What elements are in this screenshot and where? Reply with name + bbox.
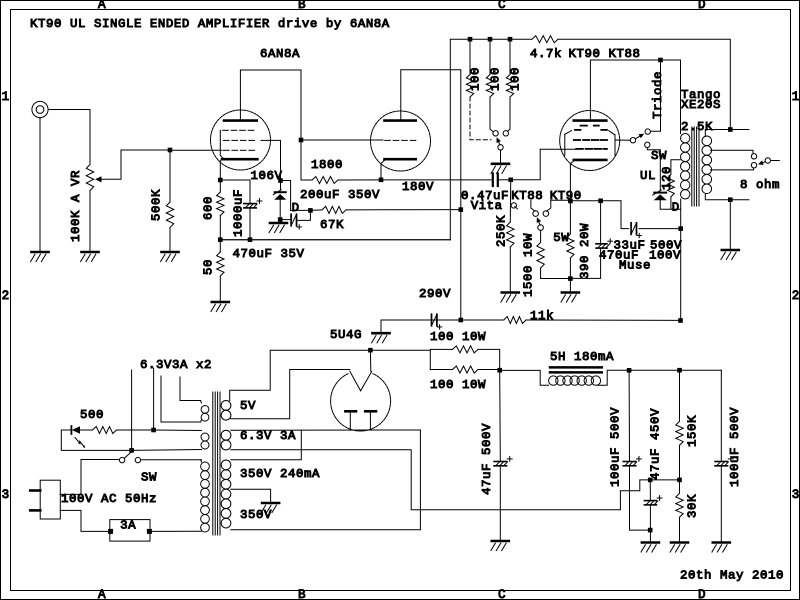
- wire LED to 500: [80, 429, 93, 431]
- wire 100uF b bottom lead: [720, 466, 722, 542]
- switch SW UL contact bottom: [645, 142, 650, 147]
- wire 47uF500 bottom lead: [499, 466, 501, 540]
- svg-text:KT88: KT88: [511, 189, 543, 203]
- wire tee to 470uF: [600, 201, 602, 244]
- potentiometer VR1 100K A: [86, 165, 93, 191]
- svg-text:106V: 106V: [251, 169, 283, 183]
- svg-text:2.5K: 2.5K: [681, 120, 713, 134]
- wire plate node to triode grid: [301, 139, 383, 141]
- svg-text:B: B: [298, 588, 306, 600]
- switch SW fb contact L: [493, 131, 498, 136]
- label 100uF 500V (a): [608, 407, 622, 487]
- wire coupling cap to grid node: [498, 179, 511, 181]
- transformer T1 power: [201, 392, 231, 535]
- pot wiper arrow: [95, 176, 102, 182]
- node heater junction a: [151, 428, 156, 433]
- svg-text:3: 3: [792, 488, 800, 502]
- svg-text:C: C: [498, 588, 506, 600]
- wire filament right arm: [369, 350, 371, 371]
- wire pole to 1500: [540, 230, 542, 242]
- label 1500 10W: [521, 233, 535, 297]
- node KT90 plate junction: [658, 58, 663, 63]
- wire secondary bottom lead: [705, 194, 749, 200]
- fuse F1 3A: [108, 520, 152, 542]
- svg-text:600: 600: [201, 196, 215, 220]
- wire 100 10W b left lead: [430, 369, 452, 371]
- label 350V 240mA: [240, 467, 320, 481]
- svg-text:11k: 11k: [530, 309, 554, 323]
- svg-text:D: D: [672, 201, 680, 215]
- wire secondary tap 1: [711, 150, 754, 153]
- node secondary top junction: [728, 127, 733, 132]
- node screen 106V: [278, 178, 283, 183]
- wire screen node right: [281, 181, 291, 211]
- wire triode cathode lead: [380, 164, 382, 180]
- label 6AN8A: [260, 47, 300, 61]
- ground (30K): [670, 543, 688, 553]
- wire 150K top lead: [679, 370, 681, 421]
- wire output pole lead: [771, 160, 780, 162]
- ground (fb switch): [491, 164, 509, 174]
- tube V2 KT90 output: [560, 111, 620, 171]
- wire pentode cathode lead: [219, 161, 221, 181]
- wire primary bottom lead: [680, 199, 682, 229]
- wire screen node to diode: [280, 181, 282, 191]
- capacitor C bias bypass: [291, 214, 301, 229]
- node cathode bottom junction: [568, 276, 573, 281]
- node heater junction b: [129, 448, 134, 453]
- label 180V: [402, 180, 434, 194]
- wire 1800 left lead: [301, 179, 312, 181]
- wire grid node to pentode g1: [170, 149, 222, 151]
- wire jack to pot: [48, 109, 90, 111]
- svg-text:30K: 30K: [685, 494, 699, 518]
- resistor R 100 fb select 3: [506, 75, 513, 98]
- node rail R3 tap: [508, 37, 513, 42]
- svg-text:100K A VR: 100K A VR: [69, 170, 83, 242]
- wire KT88 contact stub: [531, 200, 535, 211]
- label 67K: [320, 218, 344, 232]
- svg-text:1: 1: [2, 90, 10, 104]
- resistor R 500 pilot: [93, 427, 117, 434]
- node grid of pentode: [168, 148, 173, 153]
- capacitor C 1000uF: [244, 199, 262, 208]
- svg-text:A: A: [98, 0, 106, 12]
- label 47uF 500V: [480, 423, 494, 495]
- date label 20th May 2010: [680, 569, 784, 583]
- label 470uF 100V: [599, 248, 681, 262]
- wire KT90 g2 lead: [615, 139, 630, 141]
- wire choke right lead: [598, 370, 629, 385]
- svg-text:120: 120: [660, 166, 674, 190]
- wire feedback vertical: [450, 39, 532, 240]
- resistor R 100 10W a: [453, 346, 479, 353]
- wire cathode node right: [570, 200, 600, 202]
- node primary bottom junction: [678, 226, 683, 231]
- svg-text:20th May 2010: 20th May 2010: [680, 569, 784, 583]
- switch SW UL contact top: [645, 129, 650, 134]
- label 500K: [149, 189, 163, 221]
- ground (250K): [501, 293, 519, 303]
- label 2.5K: [681, 120, 713, 134]
- wire jack ground lead: [39, 118, 41, 252]
- terminal circle on 250K line: [511, 203, 517, 209]
- svg-text:Vita: Vita: [471, 199, 503, 213]
- switch SW output contact bottom: [751, 163, 756, 168]
- wire fuse to primary bottom: [149, 530, 201, 532]
- svg-text:6AN8A: 6AN8A: [260, 47, 300, 61]
- svg-text:350V: 350V: [240, 508, 272, 522]
- capacitor C 0.47uF coupling: [493, 174, 498, 187]
- capacitor C 100uF 500V b: [715, 457, 733, 466]
- resistor R 1500 10W: [537, 242, 544, 268]
- node filter input: [497, 368, 502, 373]
- wire pentode plate to node: [240, 70, 301, 180]
- label 47uF 450V: [648, 408, 662, 480]
- wire 100 10W a right lead: [478, 349, 500, 370]
- wire plug top lead: [60, 460, 119, 495]
- ground (bias diode): [269, 223, 287, 233]
- resistor R 390 20W: [567, 234, 574, 258]
- resistor R 50: [217, 252, 224, 276]
- wire 390 bottom lead: [569, 258, 571, 279]
- wire B+ to dropping resistors: [370, 350, 430, 370]
- wire 6.3V bottom to bias: [231, 450, 650, 510]
- wire plate node to primary top: [661, 60, 681, 134]
- capacitor C fb line: [432, 314, 442, 329]
- label 150K: [685, 415, 699, 447]
- ground (KT90 cathode): [561, 293, 579, 303]
- svg-text:5V: 5V: [240, 399, 256, 413]
- label XE20S: [681, 98, 721, 112]
- wire 67K to plate line: [346, 209, 461, 211]
- resistor R 30K bleeder: [676, 493, 683, 517]
- node cathode fb junction: [218, 237, 223, 242]
- svg-text:B: B: [298, 0, 306, 12]
- label 1000uF: [231, 189, 245, 237]
- node B+ transformer junction: [678, 318, 683, 323]
- label 350V (lower): [240, 508, 272, 522]
- svg-text:1800: 1800: [311, 158, 343, 172]
- svg-text:2: 2: [2, 289, 10, 303]
- wire 600 to fb node: [219, 216, 221, 240]
- label D: [292, 201, 300, 215]
- wire triode plate lead: [401, 70, 461, 210]
- switch SW cathode contact KT90: [543, 211, 549, 217]
- resistor R 500K grid leak: [166, 202, 173, 228]
- wire diode to ground node: [279, 200, 281, 220]
- wire cathode bottom to ground: [569, 279, 571, 292]
- wire pot bottom lead: [89, 191, 91, 253]
- wire feedback row: [220, 239, 450, 241]
- switch SW fb contact R: [503, 131, 508, 136]
- wire 50 bottom lead: [219, 276, 221, 302]
- wire 250K top lead: [509, 180, 511, 222]
- wire cathode to coupling cap: [381, 179, 491, 181]
- label 5U4G: [330, 328, 362, 342]
- label Muse: [619, 259, 651, 273]
- label UL: [640, 169, 656, 183]
- svg-text:3A: 3A: [120, 519, 136, 533]
- wire pentode g2 lead: [271, 140, 281, 180]
- svg-text:KT90 UL SINGLE ENDED AMPLIFIER: KT90 UL SINGLE ENDED AMPLIFIER drive by …: [30, 17, 390, 31]
- node KT90 grid node: [508, 178, 513, 183]
- svg-text:XE20S: XE20S: [681, 98, 721, 112]
- label 250K: [494, 215, 508, 247]
- node triode cathode: [379, 178, 384, 183]
- label KT88: [511, 189, 543, 203]
- ground (pot): [81, 252, 99, 262]
- resistor R 150K bleeder: [676, 421, 683, 445]
- svg-text:6.3V3A x2: 6.3V3A x2: [140, 358, 212, 372]
- label SW (UL): [651, 149, 667, 163]
- wire 350V top lead: [231, 430, 301, 460]
- wire 1500 bottom lead: [541, 268, 571, 279]
- node 290V junction: [459, 318, 464, 323]
- label 100uF 500V (b): [728, 407, 742, 487]
- wire 100 10W b right lead: [478, 369, 500, 371]
- wire 50 top lead: [219, 240, 221, 252]
- wire 290V line left: [381, 320, 460, 333]
- resistor R 100 10W b: [453, 366, 479, 373]
- ground (350V center tap): [261, 503, 279, 513]
- switch SW output pole: [765, 158, 770, 163]
- wire heater lead 3: [161, 376, 201, 422]
- title text KT90 UL SINGLE ENDED AMPLIFIER drive by 6AN8A: [30, 17, 390, 31]
- svg-text:Muse: Muse: [619, 259, 651, 273]
- transformer T2 Tango XE20S output: [681, 127, 712, 206]
- wire wiper to grid node: [102, 150, 171, 179]
- inductor L1 choke 5H 180mA: [549, 367, 602, 385]
- wire secondary top lead: [705, 130, 749, 137]
- capacitor C 100uF 500V a: [623, 457, 641, 466]
- label 100K A VR: [69, 170, 83, 242]
- wire 100uF a bottom lead: [630, 466, 651, 530]
- node diode ground junction: [278, 217, 283, 222]
- svg-text:250K: 250K: [494, 215, 508, 247]
- ground (input jack): [31, 252, 49, 262]
- svg-text:KT90 KT88: KT90 KT88: [569, 47, 641, 61]
- resistor R 11k: [504, 317, 526, 324]
- wire 150K bottom lead: [679, 445, 681, 480]
- label 600: [201, 196, 215, 220]
- label 50: [201, 259, 215, 275]
- label 100 10W (a): [430, 330, 486, 344]
- switch SW cathode pole: [538, 225, 544, 231]
- wire B+ distribution: [629, 369, 721, 371]
- wire primary bottom to B+ node: [680, 229, 682, 321]
- wire L2 bottom lead: [132, 449, 202, 452]
- wire switch to primary: [141, 459, 202, 461]
- wire 250K bottom lead: [509, 247, 511, 292]
- node pentode cathode: [218, 178, 223, 183]
- wire cap to 67K node: [297, 210, 311, 220]
- switch SW mains b: [135, 457, 140, 462]
- capacitor C 33uF 500V: [631, 223, 641, 238]
- wire 100uF b top lead: [720, 370, 722, 461]
- svg-text:D: D: [698, 588, 706, 600]
- switch SW mains a: [119, 457, 124, 462]
- wire L2 top lead: [154, 429, 202, 432]
- wire cap left lead: [381, 319, 429, 321]
- wire choke left lead: [500, 370, 549, 385]
- svg-text:100 10W: 100 10W: [430, 330, 486, 344]
- svg-text:4.7k: 4.7k: [530, 47, 562, 61]
- node B+ 150K junction: [677, 368, 682, 373]
- label 100 (2): [488, 67, 502, 91]
- resistor R 4.7k feedback: [532, 36, 558, 43]
- wire KT90 cathode lead: [569, 164, 571, 201]
- wire pot top lead: [89, 110, 91, 165]
- wire 120 top to UL tap: [671, 160, 680, 175]
- svg-text:5H 180mA: 5H 180mA: [550, 350, 614, 364]
- label 1800: [311, 158, 343, 172]
- wire 33uF to primary bottom node: [639, 228, 681, 230]
- tube V1 6AN8A triode section: [371, 111, 431, 171]
- capacitor C 47uF 450V: [644, 496, 662, 505]
- wire 30K bottom lead: [679, 517, 681, 541]
- svg-text:350V 240mA: 350V 240mA: [240, 467, 320, 481]
- svg-text:5U4G: 5U4G: [330, 328, 362, 342]
- resistor R 100 fb select 1: [466, 75, 473, 98]
- label 5H 180mA: [550, 350, 614, 364]
- wire 1800 right lead: [338, 179, 381, 181]
- label 100V AC 50Hz: [61, 492, 157, 506]
- wire 500K top lead: [169, 150, 171, 202]
- node choke output: [627, 368, 632, 373]
- label 8 ohm: [740, 178, 780, 192]
- node 47uF450 bottom junction: [648, 528, 653, 533]
- svg-text:200uF 350V: 200uF 350V: [300, 188, 380, 202]
- label 6.3V3A x2: [140, 358, 212, 372]
- mains plug: [30, 480, 60, 519]
- svg-text:470uF 35V: 470uF 35V: [233, 247, 305, 261]
- label 3A: [120, 519, 136, 533]
- label 100 10W (b): [430, 378, 486, 392]
- tube V1 6AN8A pentode section: [211, 110, 271, 170]
- wire secondary tap 2: [711, 168, 754, 170]
- resistor R 120: [668, 175, 675, 197]
- wire UL contact to 120: [647, 148, 660, 191]
- label 106V: [251, 169, 283, 183]
- UL switch arrow: [635, 134, 644, 139]
- node KT90 cathode: [568, 199, 573, 204]
- svg-text:1000uF: 1000uF: [231, 189, 245, 237]
- wire secondary to ground: [729, 200, 731, 249]
- node 67K plate junction: [459, 207, 464, 212]
- node rectifier B+ takeoff: [368, 348, 373, 353]
- label 390 20W: [578, 223, 592, 279]
- svg-text:390 20W: 390 20W: [578, 223, 592, 279]
- resistor R 600 cathode: [217, 192, 224, 216]
- wire 120 bottom lead: [670, 197, 672, 209]
- svg-text:C: C: [498, 0, 506, 12]
- switch SW fb common: [498, 145, 503, 150]
- label 200uF 350V: [300, 188, 380, 202]
- wire 11k left lead: [461, 319, 504, 321]
- label 4.7k: [530, 47, 562, 61]
- wire 100 ohm top lead 3: [509, 39, 511, 74]
- svg-text:67K: 67K: [320, 218, 344, 232]
- label 0.47uF: [461, 189, 509, 203]
- wire bias node row: [650, 479, 679, 481]
- svg-text:100uF 500V: 100uF 500V: [608, 407, 622, 487]
- svg-text:500K: 500K: [149, 189, 163, 221]
- node 47uF 450V plus: [648, 478, 653, 483]
- ground (47uF 450V): [641, 543, 659, 553]
- tube V3 5U4G rectifier: [331, 368, 391, 431]
- label 5V: [240, 399, 256, 413]
- wire 67K left lead: [310, 209, 322, 212]
- switch SW UL pole: [630, 138, 635, 143]
- wire 47uF450 bottom lead: [649, 505, 651, 542]
- wire 100-1 dashed lead: [470, 97, 491, 140]
- wire 47uF500 top lead: [499, 370, 502, 461]
- wire diode bottom lead: [660, 200, 680, 209]
- wire L1 bottom lead: [200, 420, 203, 423]
- diode D2: [653, 190, 667, 200]
- node 1000uF bottom: [248, 237, 253, 242]
- node rail R2 tap: [488, 37, 493, 42]
- ground (pentode cathode): [211, 302, 229, 312]
- svg-text:Triode: Triode: [651, 71, 665, 119]
- label KT90: [550, 189, 582, 203]
- wire primary top bend: [200, 460, 203, 462]
- svg-text:UL: UL: [640, 169, 656, 183]
- wire 5V winding bottom to filament: [231, 370, 350, 419]
- label KT90 KT88: [569, 47, 641, 61]
- wire 100-3 lead: [508, 97, 511, 132]
- label D (output): [672, 201, 680, 215]
- label SW (mains): [141, 471, 157, 485]
- svg-text:150K: 150K: [685, 415, 699, 447]
- node 67K left: [308, 208, 313, 213]
- label 100 (3): [508, 67, 522, 91]
- wire plate node to triode contact: [650, 60, 660, 131]
- wire 100 ohm top lead 2: [489, 39, 491, 74]
- svg-text:8 ohm: 8 ohm: [740, 178, 780, 192]
- ground (47uF 500V): [491, 541, 509, 551]
- ground (500K): [161, 252, 179, 262]
- svg-text:500: 500: [80, 408, 104, 422]
- wire 100 10W a left lead: [430, 348, 452, 350]
- wire screen node to 67K row: [291, 209, 311, 211]
- wire 470uF bottom lead: [570, 248, 600, 278]
- node 150K 30K junction: [677, 478, 682, 483]
- wire 500 to heater row: [117, 429, 154, 431]
- label 33uF 500V: [614, 239, 682, 253]
- wire tee to 33uF: [601, 201, 629, 229]
- ground (secondary): [721, 250, 739, 260]
- label 30K: [685, 494, 699, 518]
- wire 1000uF top lead: [220, 180, 250, 204]
- wire 100-2 lead: [490, 97, 493, 132]
- svg-text:100V: 100V: [649, 248, 681, 262]
- resistor R 67K: [322, 206, 346, 213]
- svg-text:100 10W: 100 10W: [430, 378, 486, 392]
- label 11k: [530, 309, 554, 323]
- output switch arrow: [758, 160, 765, 165]
- label 120: [660, 166, 674, 190]
- svg-text:290V: 290V: [419, 287, 451, 301]
- label 290V: [419, 287, 451, 301]
- wire 11k right lead: [526, 319, 681, 321]
- node secondary ground junction: [728, 197, 733, 202]
- wire ground node to cap: [280, 219, 291, 221]
- svg-text:100: 100: [508, 67, 522, 91]
- svg-text:1500 10W: 1500 10W: [521, 233, 535, 297]
- svg-text:3: 3: [2, 488, 10, 502]
